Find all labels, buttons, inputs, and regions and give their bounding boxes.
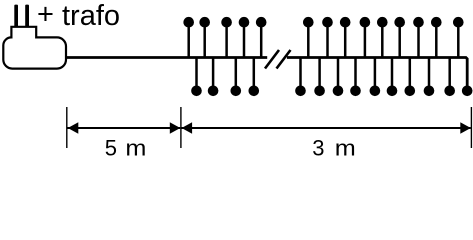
svg-text:trafo: trafo — [62, 0, 120, 32]
svg-text:5: 5 — [105, 135, 117, 160]
svg-text:+: + — [37, 0, 54, 30]
svg-text:m: m — [335, 135, 356, 160]
svg-text:3: 3 — [312, 135, 324, 160]
svg-text:m: m — [125, 135, 146, 160]
